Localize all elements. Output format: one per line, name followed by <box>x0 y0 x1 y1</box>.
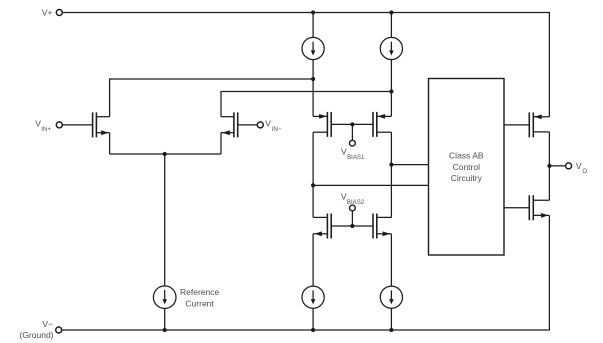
svg-text:Control: Control <box>453 162 481 172</box>
junction top rail / I2 <box>389 10 393 14</box>
wire I4 to V- rail <box>312 309 314 331</box>
wire V+ supply rail with right-side drop to M7 source <box>62 13 549 117</box>
svg-text:V−: V− <box>42 319 53 329</box>
wire M2 gate to VIN- terminal <box>238 124 258 126</box>
wire output node to VO terminal <box>549 165 565 167</box>
svg-text:V: V <box>265 119 271 129</box>
current source I4 <box>302 286 324 308</box>
svg-text:(Ground): (Ground) <box>19 330 53 340</box>
svg-text:Reference: Reference <box>180 287 219 297</box>
wire common gate line M5-M6 <box>331 225 373 227</box>
wire VBIAS2 stub <box>351 211 353 226</box>
transistor M4 (PMOS, second stage right) <box>373 112 391 137</box>
wire M7 drain to output node to M8 drain <box>548 132 550 200</box>
terminal V+ <box>56 10 62 16</box>
junction output node <box>547 164 551 168</box>
junction node B <box>389 89 393 93</box>
svg-text:BIAS2: BIAS2 <box>347 199 365 206</box>
wire I1 bottom stem to node A <box>312 60 314 79</box>
wire left branch tap to Class AB box <box>313 184 428 186</box>
junction bottom rail / I3 <box>163 328 167 332</box>
wire reference current source to V- rail <box>164 309 166 331</box>
wire tail line joining M1 and M2 sources <box>110 153 221 155</box>
current source I1 <box>302 37 324 59</box>
wire right branch tap to Class AB box <box>391 164 428 166</box>
svg-text:BIAS1: BIAS1 <box>347 154 365 161</box>
current source I3 (reference current) <box>153 286 176 309</box>
svg-text:Current: Current <box>185 299 214 309</box>
wire I2 top stem <box>390 13 392 38</box>
wire V- supply rail with right-side rise to M8 source <box>62 215 550 330</box>
transistor M2 (NMOS, VIN- input, mirrored) <box>221 112 238 137</box>
junction top rail / I1 <box>311 10 315 14</box>
wire tail node down to reference current source <box>164 154 166 286</box>
Class AB control circuitry box <box>429 79 505 256</box>
wire M1 source down to tail node <box>109 133 111 154</box>
transistor M3 (PMOS, second stage left, mirrored) <box>313 112 331 137</box>
junction node A <box>311 77 315 81</box>
wire VIN+ terminal to M1 gate <box>62 124 92 126</box>
wire M5 source down to current source I4 <box>312 234 314 286</box>
svg-text:IN−: IN− <box>272 126 282 133</box>
wire node A down to M3 source <box>312 79 314 116</box>
wire M6 source down to current source I5 <box>390 234 392 286</box>
wire M2 source down to tail line <box>220 133 222 154</box>
wire left branch M3 drain to M5 drain <box>312 132 314 217</box>
junction right branch tap <box>389 163 393 167</box>
transistor M8 (NMOS, output low side) <box>529 195 549 220</box>
svg-text:IN+: IN+ <box>41 126 51 133</box>
terminal VBIAS2 <box>350 205 356 211</box>
junction VBIAS1 gate node <box>350 122 354 126</box>
transistor M1 (NMOS, VIN+ input) <box>93 112 110 137</box>
terminal VIN+ <box>56 122 62 128</box>
svg-text:Circuitry: Circuitry <box>451 173 483 183</box>
wire I5 to V- rail <box>390 309 392 331</box>
terminal VIN- <box>257 122 263 128</box>
terminal VBIAS1 <box>350 140 356 146</box>
terminal V- <box>56 327 62 333</box>
junction bottom rail / I4 <box>311 328 315 332</box>
junction bottom rail / I5 <box>389 328 393 332</box>
wire common gate line M3-M4 <box>331 123 373 125</box>
transistor M7 (PMOS, output high side) <box>529 112 549 137</box>
current source I2 <box>380 37 402 59</box>
wire M1 drain up and right to node A <box>110 79 314 117</box>
wire Class AB box to M7 gate <box>504 124 529 126</box>
wire M2 drain up and right to node B <box>221 92 391 117</box>
terminal VO <box>566 163 572 169</box>
wire Class AB box to M8 gate <box>504 207 529 209</box>
wire VBIAS1 stub <box>351 124 353 140</box>
svg-text:Class AB: Class AB <box>449 151 484 161</box>
transistor M5 (NMOS, lower pair left, mirrored) <box>313 214 331 239</box>
junction left branch tap <box>311 183 315 187</box>
wire I1 top stem <box>312 13 314 38</box>
current source I5 <box>380 286 402 308</box>
transistor M6 (NMOS, lower pair right) <box>373 214 391 239</box>
wire I2 bottom stem to node B <box>390 60 392 92</box>
svg-text:V+: V+ <box>42 8 53 18</box>
wire right branch M4 drain to M6 drain <box>390 132 392 217</box>
wire node B down to M4 source <box>390 92 392 117</box>
svg-text:V: V <box>576 161 582 171</box>
junction tail node <box>163 152 167 156</box>
junction VBIAS2 gate node <box>350 224 354 228</box>
svg-text:O: O <box>582 168 587 175</box>
